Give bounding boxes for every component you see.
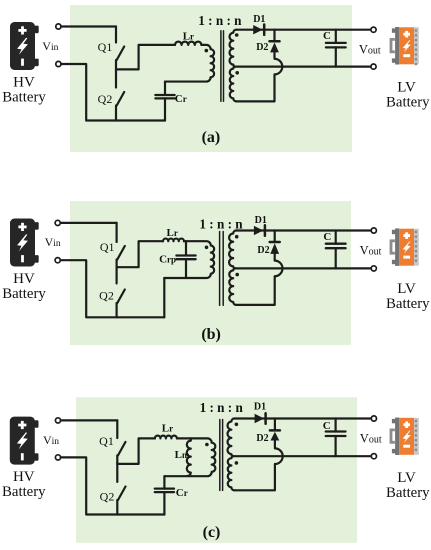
secondary 2 phase dot	[235, 71, 239, 75]
svg-text:Vout: Vout	[360, 432, 382, 446]
diode D2	[274, 231, 276, 243]
svg-text:Lr: Lr	[167, 227, 178, 239]
wire D2 to secondary 2 bottom with hop over tap	[234, 441, 282, 491]
svg-text:Lr: Lr	[162, 423, 173, 435]
output terminal +	[371, 228, 376, 233]
diode D1	[253, 25, 262, 34]
svg-text:HV: HV	[13, 469, 35, 485]
svg-text:Q1: Q1	[98, 40, 113, 54]
transformer core	[220, 31, 222, 102]
secondary winding 1	[229, 231, 236, 269]
capacitor C	[335, 231, 337, 244]
inductor Lm (parallel)	[187, 438, 191, 476]
switch Q1	[116, 420, 118, 438]
wire: half-bridge midpoint to Lr	[117, 438, 155, 464]
svg-text:Cr: Cr	[176, 487, 188, 499]
svg-text:1 : n : n: 1 : n : n	[200, 400, 244, 415]
output terminal -	[371, 64, 376, 69]
HV battery icon	[10, 417, 35, 465]
svg-text:1 : n : n: 1 : n : n	[198, 13, 242, 28]
diode D2	[274, 419, 276, 431]
output terminal -	[371, 266, 376, 271]
svg-text:Q2: Q2	[100, 490, 115, 504]
wire top input	[61, 419, 118, 421]
secondary 1 phase dot	[235, 235, 239, 239]
svg-text:LV: LV	[397, 79, 416, 95]
wire center-tap output rail	[235, 65, 370, 67]
LV battery icon	[391, 39, 395, 51]
svg-text:D2: D2	[257, 245, 269, 256]
output terminal +	[371, 27, 376, 32]
LV battery icon	[391, 430, 395, 442]
svg-text:C: C	[323, 420, 331, 432]
svg-text:(b): (b)	[201, 326, 221, 343]
svg-text:HV: HV	[13, 74, 35, 90]
transformer core	[219, 420, 221, 491]
svg-text:Q2: Q2	[98, 92, 113, 106]
svg-text:(c): (c)	[203, 524, 221, 541]
capacitor Cr (series)	[164, 82, 166, 95]
inductor Lr	[175, 42, 201, 45]
svg-text:Battery: Battery	[386, 485, 430, 501]
svg-text:Q1: Q1	[100, 240, 115, 254]
HV battery icon	[10, 219, 35, 267]
secondary 1 phase dot	[235, 33, 239, 37]
green panel background (b)	[70, 201, 351, 345]
transformer core	[219, 232, 221, 306]
capacitor C	[335, 419, 337, 432]
switch Q2	[115, 69, 117, 87]
LV battery icon	[391, 241, 395, 253]
wire primary-bottom to bridge bottom	[163, 278, 165, 317]
svg-text:C: C	[323, 30, 331, 42]
green panel background (c)	[76, 397, 357, 543]
svg-text:D1: D1	[254, 402, 266, 413]
switch Q2	[115, 267, 117, 283]
input terminal -	[55, 455, 60, 460]
wire top output rail	[236, 29, 370, 31]
inductor Lr	[163, 239, 184, 242]
diode D2	[273, 30, 275, 42]
svg-text:C: C	[323, 231, 331, 243]
svg-text:Crp: Crp	[159, 254, 176, 266]
svg-text:Vout: Vout	[359, 42, 381, 56]
svg-text:Battery: Battery	[2, 286, 46, 302]
switch Q1	[115, 27, 117, 43]
transformer primary winding	[165, 45, 214, 82]
secondary winding 2	[229, 268, 236, 305]
input terminal +	[55, 418, 60, 423]
wire bottom input	[61, 64, 165, 121]
svg-text:Q2: Q2	[99, 289, 114, 303]
wire bottom input	[60, 260, 164, 317]
svg-text:Q1: Q1	[99, 434, 114, 448]
wire top output rail	[236, 229, 371, 231]
svg-text:1 : n : n: 1 : n : n	[199, 216, 243, 231]
svg-text:Lm: Lm	[175, 449, 190, 461]
svg-text:Cr: Cr	[175, 93, 187, 105]
svg-text:(a): (a)	[202, 129, 221, 146]
wire top input	[60, 222, 116, 224]
HV battery icon	[10, 22, 35, 70]
svg-text:Battery: Battery	[2, 89, 46, 105]
switch Q2	[116, 464, 118, 482]
svg-text:HV: HV	[13, 271, 35, 287]
secondary winding 2	[228, 456, 235, 490]
primary phase dot	[205, 246, 209, 250]
transformer primary winding	[164, 438, 215, 476]
diode D1	[254, 226, 263, 235]
wire center-tap output rail	[235, 267, 371, 269]
secondary winding 1	[230, 30, 237, 67]
wire: half-bridge midpoint to Lr	[116, 45, 175, 70]
diode D1	[255, 414, 264, 423]
output terminal +	[371, 416, 376, 421]
secondary 2 phase dot	[235, 273, 239, 277]
svg-text:D1: D1	[255, 215, 267, 226]
capacitor C	[335, 30, 337, 43]
output terminal -	[371, 454, 376, 459]
wire top input	[61, 25, 116, 27]
secondary 2 phase dot	[235, 461, 239, 465]
svg-text:D2: D2	[256, 42, 268, 53]
svg-text:D1: D1	[253, 14, 265, 25]
wire D2 to secondary 2 bottom with hop over tap	[236, 52, 282, 101]
wire top output rail	[234, 417, 371, 419]
primary phase dot	[205, 49, 209, 53]
wire bottom input	[61, 457, 165, 514]
secondary winding 2	[230, 67, 237, 102]
secondary winding 1	[228, 419, 235, 457]
transformer primary winding	[164, 241, 214, 278]
svg-text:LV: LV	[397, 470, 416, 486]
capacitor Cr (series)	[163, 476, 165, 488]
svg-text:Battery: Battery	[2, 484, 46, 500]
input terminal -	[56, 61, 61, 66]
svg-text:Battery: Battery	[386, 296, 430, 312]
wire: half-bridge midpoint to Lr	[117, 241, 163, 267]
primary phase dot	[205, 443, 209, 447]
svg-text:D2: D2	[256, 433, 268, 444]
svg-text:LV: LV	[397, 281, 416, 297]
wire D2 to secondary 2 bottom with hop over tap	[236, 254, 282, 305]
svg-text:Lr: Lr	[183, 31, 194, 43]
green panel background (a)	[70, 5, 352, 152]
secondary 1 phase dot	[235, 423, 239, 427]
input terminal -	[55, 258, 60, 263]
wire center-tap output rail	[233, 455, 371, 457]
svg-text:Battery: Battery	[386, 95, 430, 111]
input terminal +	[55, 220, 60, 225]
inductor Lr	[155, 436, 177, 439]
capacitor Crp (parallel)	[185, 241, 187, 255]
input terminal +	[56, 24, 61, 29]
svg-text:Vout: Vout	[360, 243, 382, 257]
switch Q1	[115, 223, 117, 242]
